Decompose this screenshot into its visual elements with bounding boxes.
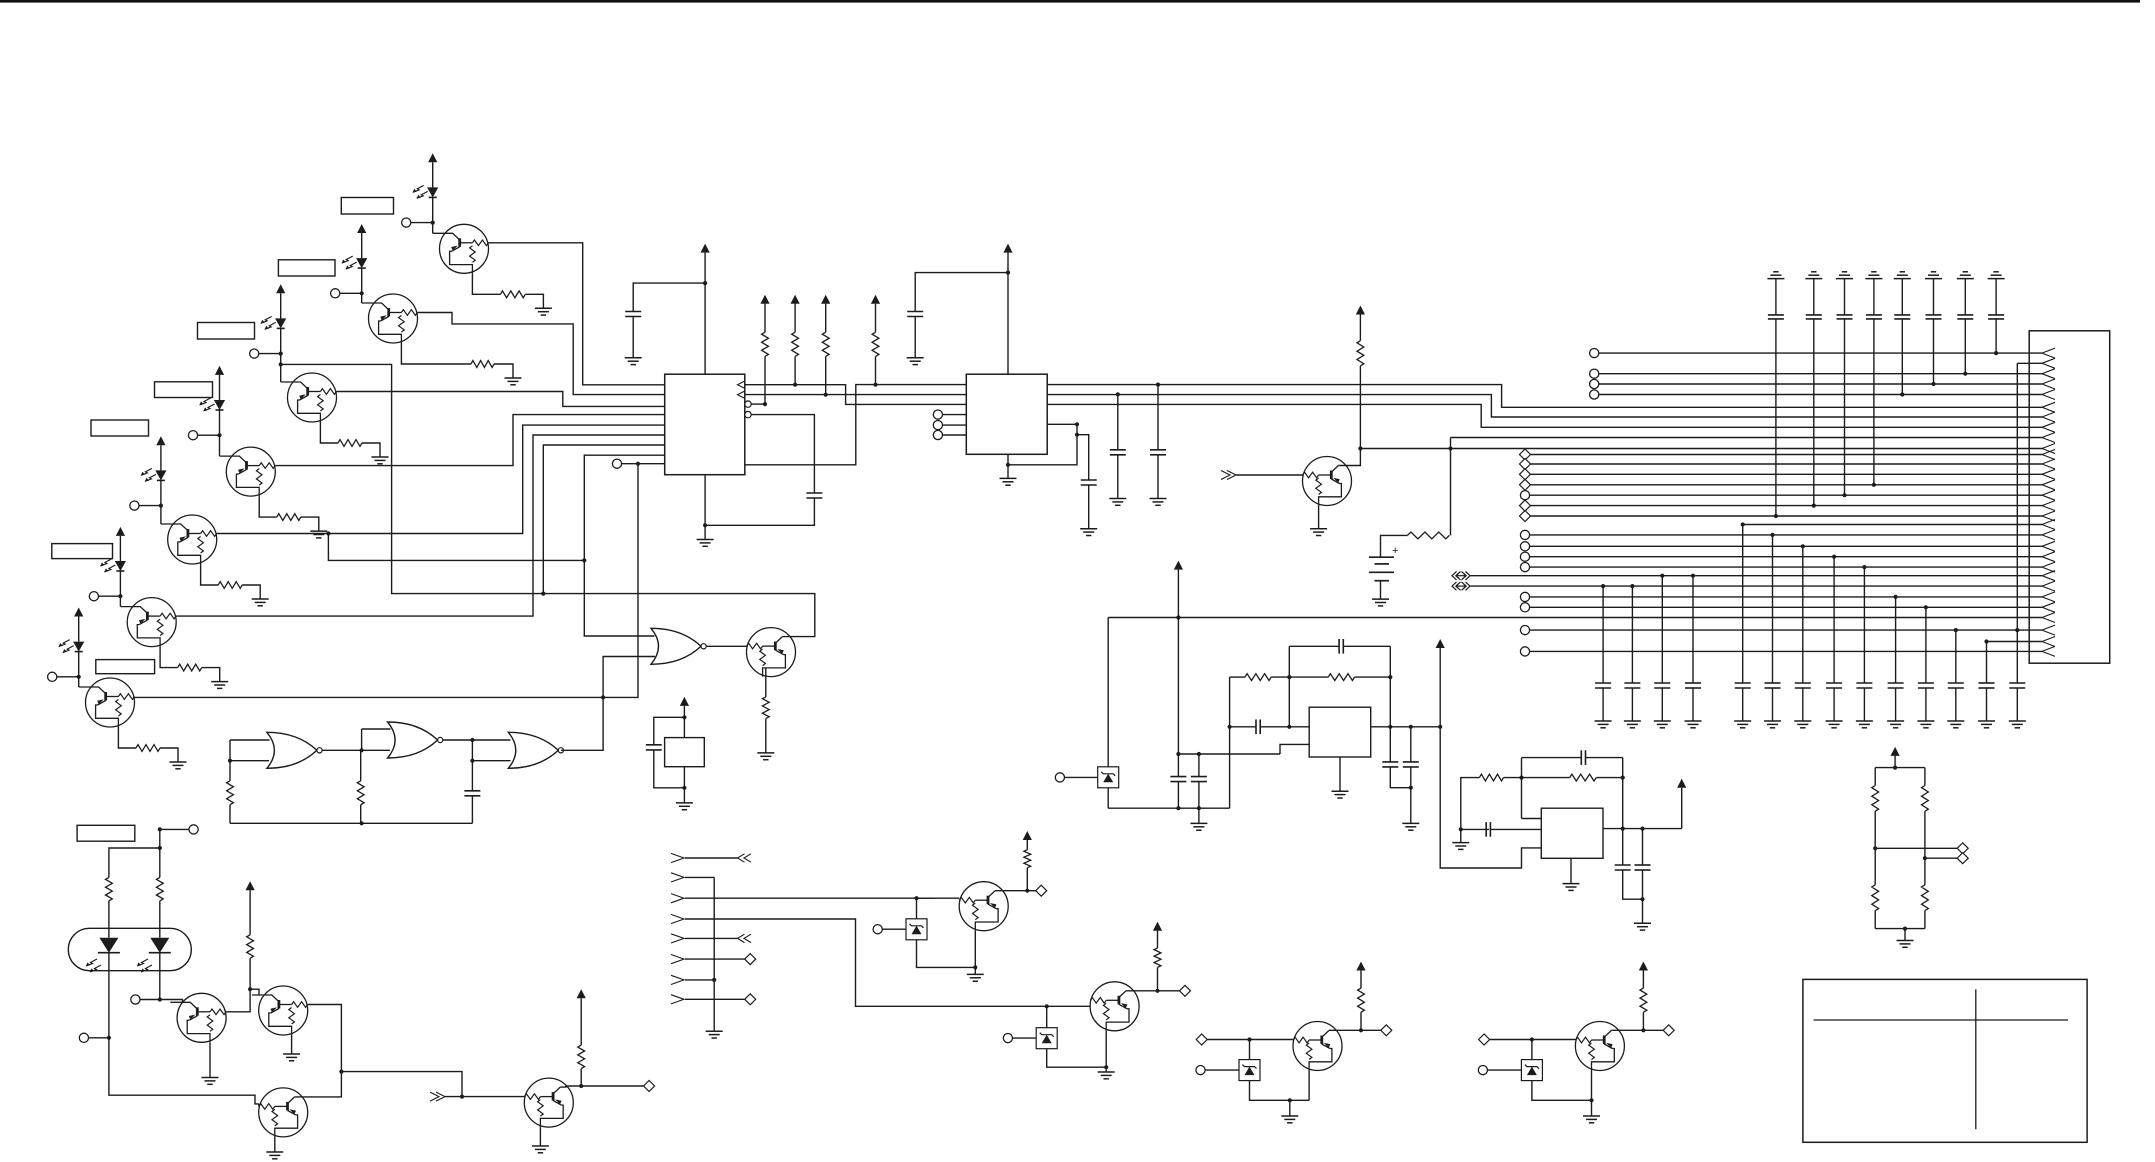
wire Q9 collector: [1338, 449, 1360, 466]
pin PZ3: [1003, 1034, 1035, 1043]
node row20 tap: [1801, 544, 1805, 548]
node RN diamond1: [1957, 843, 1968, 854]
wire F to reg: [1280, 744, 1309, 754]
node RN diamond2: [1957, 853, 1968, 864]
node QA diamond: [1036, 885, 1047, 896]
node QA e: [973, 965, 977, 969]
wire J13: [445, 1096, 462, 1098]
pin PO3: [131, 995, 160, 1004]
wire Q2 emitter: [401, 343, 471, 364]
pin P1: [402, 218, 433, 227]
wire 1 to base: [432, 223, 434, 234]
wire H2 gnd: [713, 877, 715, 1031]
wire R8 gnd: [765, 719, 767, 753]
wire T4 out: [275, 415, 665, 466]
wire QA collector: [995, 890, 1027, 892]
wire G2 out: [443, 739, 472, 741]
node Q11 in: [248, 987, 252, 991]
capacitor CB1896: [1888, 683, 1904, 688]
pin U2 in1: [933, 410, 966, 419]
transistor Q3: [281, 373, 337, 422]
pin U2 in2: [933, 421, 966, 430]
wire QD in: [1490, 1039, 1576, 1041]
ground CB1896: [1887, 721, 1904, 728]
wire RE3 to gnd: [362, 443, 380, 457]
wire bottom rail F: [1108, 807, 1229, 809]
node Q9 coll: [1358, 446, 1362, 450]
resistor RQ13: [578, 1045, 585, 1069]
transistor QD: [1575, 1022, 1624, 1071]
VCC arrow 2: [357, 224, 366, 258]
ground Q11: [283, 1054, 300, 1061]
pin CN15: [1520, 491, 1529, 500]
node QC in: [1247, 1037, 1251, 1041]
pin arrow H3: [671, 894, 684, 903]
wire QB gnd: [1105, 1067, 1107, 1072]
ground Q12: [266, 1152, 283, 1159]
wire battery row: [1451, 437, 2043, 439]
node RN bottom: [1903, 927, 1907, 931]
wire row2: [2017, 362, 2042, 364]
wire CT1996 b: [1995, 319, 1997, 353]
node row18 tap: [1741, 522, 1745, 526]
node row5 tap: [1900, 392, 1904, 396]
wire CT1776 a: [1775, 279, 1777, 315]
node row29 tap: [1984, 639, 1988, 643]
pin arrow 13: [2042, 469, 2055, 479]
wire CB1662 b: [1661, 688, 1663, 721]
pin arrow 17: [2042, 511, 2055, 521]
node H6 diamond: [745, 954, 756, 965]
wire QC emitter: [1308, 1071, 1310, 1101]
node U4o2: [1640, 827, 1644, 831]
pin arrow 28: [2042, 625, 2055, 635]
wire RQ11 bottom: [249, 958, 251, 989]
wire loop right: [1389, 646, 1391, 727]
resistor RO1: [106, 877, 113, 901]
wire R10-R11: [1271, 676, 1328, 678]
ground Q10: [202, 1078, 219, 1085]
wire RP4 top: [875, 304, 877, 333]
wire row16: [1531, 505, 2043, 507]
wire row30: [1529, 650, 2042, 652]
ground GE5: [252, 599, 269, 606]
wire T6 out: [176, 435, 665, 616]
LED D3: [261, 316, 287, 329]
resistor RN2: [1922, 786, 1929, 812]
wire T7 out: [135, 696, 604, 698]
node G2 in: [360, 748, 364, 752]
wire CB1803 b: [1802, 688, 1804, 721]
pin arrow 22: [2042, 562, 2055, 572]
node Q13 out: [579, 1084, 583, 1088]
wire CT1902 b: [1901, 319, 1903, 395]
ground CT1934: [1925, 272, 1942, 279]
ground CT1965: [1957, 272, 1974, 279]
pin arrow 1: [2042, 348, 2055, 358]
wire U2 out4: [1008, 424, 1077, 465]
wire R13 left: [1522, 777, 1570, 779]
wire Q11 emitter: [291, 1035, 293, 1054]
wire H3: [685, 897, 935, 899]
wire Q8 collector: [543, 594, 815, 637]
wire RN bottom rail: [1875, 928, 1925, 930]
pin P5: [130, 501, 161, 510]
wire RQC top: [1360, 971, 1362, 989]
node Q12 join: [339, 1070, 343, 1074]
wire U3 out: [1371, 726, 1441, 728]
wire Q10 emitter: [209, 1042, 211, 1077]
capacitor CB2017: [2009, 683, 2025, 688]
node U2 vcc: [1006, 271, 1010, 275]
node CN14 diamond: [1520, 479, 1531, 490]
wire CF1: [1177, 754, 1179, 808]
pin arrow 11: [2042, 450, 2055, 460]
node U1 gnd: [703, 523, 707, 527]
node H8 diamond: [745, 994, 756, 1005]
wire C2 bottom: [705, 498, 814, 525]
node RP3: [824, 393, 828, 397]
wire CF5: [1390, 727, 1411, 788]
node N7: [77, 675, 81, 679]
border bar: [0, 0, 2140, 3]
node T3 branch: [279, 362, 283, 366]
wire row29: [1987, 641, 2043, 643]
wire CT1814 a: [1813, 279, 1815, 315]
wire loop left: [1289, 646, 1309, 727]
wire opto top: [159, 829, 161, 848]
wire QB entry: [1047, 1005, 1091, 1007]
node CN24 bidir: [1452, 582, 1470, 590]
VCC arrow RN: [1891, 747, 1900, 756]
regulator U4: [1541, 808, 1603, 858]
wire RQD bottom: [1642, 1012, 1644, 1030]
ground CF6: [1402, 823, 1419, 830]
wire RN r3: [1924, 858, 1926, 885]
wire zener vert: [1107, 618, 1109, 809]
node Q9 row cross: [1448, 446, 1452, 450]
VCC arrow 5: [156, 436, 165, 470]
ground CB1603: [1595, 721, 1612, 728]
pin CN28: [1520, 626, 1529, 635]
pin arrow 16: [2042, 501, 2055, 511]
transistor Q7: [79, 678, 135, 727]
wire RN l3: [1874, 848, 1876, 885]
resistor RN4: [1922, 885, 1929, 911]
wire capC branch: [1157, 385, 1159, 450]
wire row5: [1598, 394, 2042, 396]
wire bus B2: [1047, 395, 2042, 417]
wire QD collector: [1611, 1029, 1643, 1031]
node QD in: [1530, 1037, 1534, 1041]
capacitor CT1844: [1837, 315, 1853, 319]
node U2 gnd: [1006, 463, 1010, 467]
capacitor CB1956: [1948, 683, 1964, 688]
wire RN l4: [1874, 911, 1876, 929]
resistor R10: [1245, 674, 1271, 681]
wire CT1965 b: [1964, 319, 1966, 374]
node X1 bottom: [682, 786, 686, 790]
wire QDz bottom: [1532, 1081, 1592, 1101]
wire RN gnd: [1904, 929, 1906, 941]
wire RQ11 top: [249, 890, 251, 935]
wire CX bottom: [654, 750, 685, 788]
pin arrow H5: [671, 934, 684, 943]
VCC arrow F2: [1436, 639, 1445, 648]
resistor RG2: [357, 781, 364, 805]
node G3 in2: [470, 759, 474, 763]
node H7: [712, 978, 716, 982]
resistor RN3: [1872, 885, 1879, 911]
node U3o1: [1388, 725, 1392, 729]
ground CT1814: [1805, 272, 1822, 279]
wire U1 vcc: [704, 253, 706, 375]
wire Q8 emitter: [765, 668, 767, 697]
wire RO1 to led: [108, 901, 110, 938]
wire CB1834 b: [1833, 688, 1835, 721]
VCC arrow Q11: [246, 881, 255, 890]
wire RP1 bottom: [764, 356, 766, 404]
LED D1: [413, 185, 439, 198]
node QB in: [1045, 1004, 1049, 1008]
resistor RE2: [471, 361, 494, 368]
ground CB2017: [2009, 721, 2026, 728]
ground H2: [706, 1031, 723, 1038]
wire CG1 bottom: [471, 796, 473, 824]
wire U2 gnd: [1007, 454, 1009, 465]
wire CT1874 a: [1873, 279, 1875, 315]
wire LED3 cathode: [280, 328, 282, 353]
VCC arrow QB: [1153, 922, 1162, 931]
label box PH1: [341, 198, 393, 215]
wire CB1603 a: [1602, 586, 1604, 683]
ground CB1772: [1764, 721, 1781, 728]
wire Q9 emitter: [1318, 506, 1320, 529]
wire R12 gnd: [1460, 829, 1462, 842]
wire T2 out: [418, 313, 665, 395]
VCC arrow R9: [1356, 306, 1365, 315]
capacitor CT1996: [1988, 315, 2004, 319]
wire CB1662 a: [1661, 576, 1663, 683]
transistor QA: [959, 882, 1008, 931]
LED D2: [342, 256, 368, 269]
node F8: [1388, 675, 1392, 679]
node F7: [1287, 675, 1291, 679]
capacitor CT1814: [1806, 315, 1822, 319]
node F1: [1176, 615, 1180, 619]
wire CB2017 a: [2016, 363, 2018, 683]
ground C4: [1080, 529, 1097, 536]
node row23 tap: [1660, 574, 1664, 578]
node row25 tap: [1894, 595, 1898, 599]
pin arrow 29: [2042, 637, 2055, 647]
wire LED4 cathode: [219, 410, 221, 435]
wire U2 vcc: [1007, 253, 1009, 375]
zener ZD3: [1036, 1028, 1057, 1049]
svg-text:+: +: [1392, 545, 1398, 557]
pin arrow 8: [2042, 422, 2055, 432]
label box PH4: [155, 382, 213, 398]
label box PH6: [52, 544, 113, 559]
VCC arrow X1: [680, 697, 689, 706]
node row22 tap: [1862, 565, 1866, 569]
ground U1: [697, 540, 714, 547]
node QB e: [1104, 1065, 1108, 1069]
node F3: [1197, 806, 1201, 810]
wire row3: [1598, 373, 2042, 375]
node row28 tap: [1954, 628, 1958, 632]
wire 4 to base: [219, 435, 221, 456]
wire QD gnd: [1591, 1100, 1593, 1116]
chevron J13: [430, 1092, 445, 1101]
node row24 tap: [1601, 584, 1605, 588]
LED DO2: [137, 938, 171, 972]
resistor R13: [1570, 774, 1597, 781]
wire CT1776 b: [1775, 319, 1777, 516]
wire Q12 entry: [258, 1104, 260, 1107]
node G1 in: [228, 759, 232, 763]
wire Q13 collector: [560, 1086, 581, 1087]
zener ZD2: [906, 919, 927, 940]
wire bus A2: [1047, 385, 2042, 408]
wire C6 gnd: [1157, 455, 1159, 499]
pin CN22: [1520, 563, 1529, 572]
wire RP4 bottom: [875, 356, 877, 384]
VCC arrow U1: [701, 244, 710, 253]
ground CB1864: [1856, 721, 1873, 728]
node CN13 diamond: [1520, 469, 1531, 480]
node N1: [431, 221, 435, 225]
ground RN: [1897, 941, 1914, 948]
wire row20: [1529, 545, 2042, 547]
resistor RP2: [792, 332, 799, 356]
wire row18: [1743, 524, 2042, 526]
resistor R12: [1479, 774, 1503, 781]
capacitor CB1864: [1856, 683, 1872, 688]
pin arrow 7: [2042, 412, 2055, 422]
transistor Q1: [433, 224, 489, 273]
LED D4: [200, 398, 226, 411]
wire CB1956 a: [1955, 630, 1957, 683]
resistor RQD: [1640, 988, 1647, 1012]
resistor RE5: [218, 582, 242, 589]
wire H5: [685, 937, 738, 939]
node U4b: [1459, 827, 1463, 831]
pin arrow 20: [2042, 541, 2055, 551]
wire CT1874 b: [1873, 319, 1875, 485]
wire row27 long: [1108, 617, 2042, 619]
wire QA emitter: [974, 931, 976, 968]
wire Q6 emitter: [160, 647, 178, 668]
node U4o1: [1621, 827, 1625, 831]
wire CF9: [1622, 778, 1624, 829]
node DO2: [158, 997, 162, 1001]
node QA in: [914, 896, 918, 900]
pin CN19: [1520, 530, 1529, 539]
node N5: [159, 504, 163, 508]
wire Q8 tail: [281, 364, 544, 593]
node CN17 diamond: [1520, 511, 1531, 522]
wire Q13 emitter: [539, 1127, 541, 1146]
capacitor CT1874: [1866, 315, 1882, 319]
wire QA diamond: [1027, 890, 1035, 892]
wire R10 row: [1230, 676, 1245, 678]
wire CF gnd: [1198, 808, 1200, 823]
node U3o3: [1438, 725, 1442, 729]
resistor RE1: [500, 291, 525, 298]
transistor Q11: [252, 986, 308, 1035]
wire CF9b: [1642, 829, 1644, 900]
wire row28: [1529, 629, 2042, 631]
wire Q1 emitter: [472, 273, 500, 294]
wire row11: [1531, 454, 2043, 456]
wire X1 bottom: [683, 767, 685, 803]
wire RQD top: [1642, 971, 1644, 989]
ground GE1: [535, 308, 552, 315]
node QB out: [1155, 989, 1159, 993]
VCC arrow RP4: [871, 295, 880, 304]
pin PO1: [160, 825, 198, 834]
VCC arrow QA: [1023, 831, 1032, 840]
wire Q12 emitter: [274, 1137, 276, 1152]
label box PH8: [77, 825, 135, 841]
wire RP3 top: [825, 304, 827, 333]
wire CB1864 a: [1863, 567, 1865, 683]
node CF9b: [1640, 897, 1644, 901]
ground CB1743: [1734, 721, 1751, 728]
wire Q3 emitter: [320, 422, 338, 443]
wire RN r4: [1924, 911, 1926, 929]
node row28 tap: [2015, 628, 2019, 632]
ground C5: [1109, 499, 1126, 506]
node CF6: [1409, 786, 1413, 790]
wire U3 gnd: [1339, 757, 1341, 791]
wire ZD2 bottom: [917, 940, 976, 968]
wire RE6 to gnd: [202, 668, 220, 682]
ground CT1776: [1767, 272, 1784, 279]
LED D5: [141, 468, 167, 481]
resistor RP4: [872, 332, 879, 356]
ground CF: [1190, 823, 1207, 830]
VCC arrow RP2: [791, 295, 800, 304]
wire R12 right: [1504, 777, 1522, 779]
node CN12 diamond: [1520, 459, 1531, 470]
wire Cin row: [1230, 726, 1256, 728]
node row16 tap: [1812, 504, 1816, 508]
wire 5 to base: [160, 506, 162, 524]
wire RN l2: [1874, 811, 1876, 848]
resistor RE3: [338, 440, 362, 447]
ground CB1986: [1978, 721, 1995, 728]
pin P6: [89, 592, 120, 601]
resonator X1: [665, 738, 705, 767]
wire row24: [1471, 585, 2043, 587]
wire RE4 to gnd: [301, 517, 319, 531]
node QC diamond in: [1196, 1034, 1207, 1045]
wire CB1956 b: [1955, 688, 1957, 721]
wire RQB top: [1157, 931, 1159, 948]
wire Cin2 row: [1461, 828, 1489, 830]
wire RG1: [229, 761, 231, 824]
wire 7 to base: [78, 677, 80, 687]
resistor R11: [1328, 674, 1354, 681]
wire CB1772 b: [1772, 688, 1774, 721]
wire DO2 down: [159, 953, 161, 1000]
node U2 out4a: [1075, 422, 1079, 426]
ground CB1834: [1826, 721, 1843, 728]
transistor Q2: [362, 294, 418, 343]
ground GE4: [310, 531, 327, 538]
